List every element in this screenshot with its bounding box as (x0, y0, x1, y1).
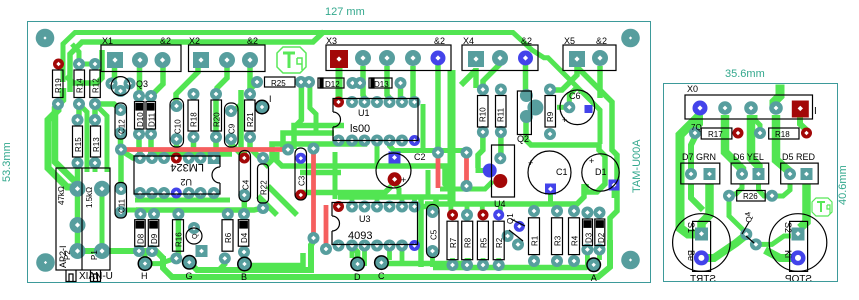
wire hookB (283, 133, 334, 150)
resistor R22 body (258, 164, 269, 203)
svg-text:R4: R4 (571, 235, 580, 246)
wire X5 sq to R9 (550, 67, 577, 90)
resistor R11 body (496, 96, 507, 128)
svg-text:R3: R3 (554, 235, 563, 246)
capacitor C2 circle (376, 153, 411, 188)
svg-text:127 mm: 127 mm (325, 6, 365, 18)
diode D2 body (595, 219, 605, 246)
wire band y192 (302, 186, 392, 193)
wire mid band y210 (136, 208, 263, 210)
svg-text:R14: R14 (76, 78, 85, 93)
svg-text:AP2-I: AP2-I (58, 245, 68, 268)
resistor R16 body (173, 220, 184, 252)
svg-text:R20: R20 (213, 112, 222, 127)
R26 pads (723, 190, 735, 202)
X0 pads (693, 101, 708, 116)
wire D7 pad down (691, 184, 703, 210)
wire U2 bottom stubs (140, 193, 214, 200)
wire red v3 bottom band (440, 181, 493, 189)
C6 blue square pad (585, 105, 593, 113)
node pad red v2 bottom (320, 243, 332, 255)
resistor R15 body (73, 126, 83, 157)
R1 pads (528, 205, 540, 217)
R20 pads (210, 88, 222, 100)
svg-text:ls00: ls00 (350, 123, 370, 135)
wire left trunk b (55, 88, 78, 188)
hole bottom-left (36, 253, 55, 272)
wire band y172 (300, 170, 341, 176)
svg-text:R16: R16 (175, 232, 184, 247)
connector X3 pads (355, 50, 371, 66)
PT logo small right board (812, 198, 832, 216)
svg-text:C2: C2 (414, 152, 426, 162)
svg-text:C: C (378, 271, 385, 281)
pad B (237, 257, 252, 272)
svg-text:R6: R6 (224, 232, 233, 243)
svg-text:A: A (591, 273, 597, 283)
wire X3 pad2 to U1 (387, 66, 390, 102)
svg-text:40.6mm: 40.6mm (837, 165, 849, 205)
LED D5 box (781, 163, 819, 184)
svg-text:G: G (186, 271, 193, 281)
node pad red h left (115, 144, 127, 156)
hole bottom-right (621, 251, 640, 270)
wire D4 to B (241, 252, 247, 258)
svg-text:D5 RED: D5 RED (782, 152, 816, 162)
wire S1 blue right (701, 235, 746, 258)
logo2 octagon (812, 198, 832, 216)
wire U3 bottom stubs (352, 246, 402, 267)
S2 blue ring pad (791, 250, 806, 265)
wire X0 red to R18 (800, 117, 807, 133)
wire R25-D12 pads (301, 80, 310, 86)
connector X1 pads (107, 52, 123, 68)
wire U4 blue left (478, 132, 486, 171)
connector X2 pads (193, 52, 209, 68)
Q4 pads (740, 228, 752, 240)
svg-text:D9: D9 (150, 233, 159, 244)
diode D9 body (148, 220, 159, 247)
connector X5 pads (569, 51, 585, 67)
diode D3 body (583, 219, 593, 246)
connector X3 box (326, 45, 451, 71)
wire X1 pad3 to D11 (152, 64, 163, 95)
pad I (255, 100, 270, 115)
diode D1 circle (582, 154, 619, 191)
wire X3 pad1 to U1 (363, 66, 365, 102)
svg-text:R15: R15 (74, 137, 83, 152)
resistor R25 body (265, 77, 296, 87)
C3 pads (295, 153, 306, 164)
D1 blue square pad (609, 180, 620, 191)
wire D7 sq to S1 (702, 184, 710, 228)
transistor Q3 outline (111, 77, 130, 96)
R3 pads (551, 205, 563, 217)
logo T (283, 53, 295, 68)
switch S2 circle (769, 214, 827, 272)
pad H (138, 256, 153, 271)
svg-text:R13: R13 (92, 137, 101, 152)
R18 pads (754, 127, 766, 139)
capacitor C10 body (170, 99, 184, 148)
resistor R8 body (462, 221, 473, 260)
wire pad301 down to hookA (296, 85, 301, 126)
Q1 pads (514, 221, 525, 232)
wire C12 top left (95, 104, 121, 110)
wire U1 bottom band (390, 141, 467, 151)
svg-text:U4: U4 (494, 199, 506, 209)
svg-text:Q2: Q2 (517, 134, 529, 144)
svg-text:R21: R21 (246, 112, 255, 127)
trimmer feet (66, 270, 101, 282)
hole top-left (36, 29, 55, 48)
D4 pads (238, 208, 250, 220)
wire left trunk S1 (680, 115, 700, 234)
wire X1 square to Q3 (112, 66, 115, 84)
wire C pad band (386, 258, 468, 264)
node pad red v3 top (432, 147, 444, 159)
wire X5 pad down (597, 66, 603, 98)
svg-text:35.6mm: 35.6mm (725, 68, 765, 80)
wire C3 red link (301, 193, 302, 195)
wire under R20 (213, 94, 219, 137)
svg-text:X3: X3 (326, 36, 337, 46)
D8 pads (135, 208, 147, 220)
svg-text:C1: C1 (556, 167, 568, 177)
svg-text:R18: R18 (775, 130, 790, 139)
svg-text:R12: R12 (92, 78, 101, 93)
svg-text:Be: Be (686, 250, 696, 261)
wire X0 pad2 to D6 (725, 115, 742, 174)
P2 P1 trimmer pads (70, 181, 86, 197)
svg-text:D1: D1 (595, 167, 607, 177)
wire pad310 to hookB (310, 85, 316, 133)
svg-text:R5: R5 (479, 237, 488, 248)
resistor R19 body (53, 70, 64, 98)
wire Q4 to S2 (756, 236, 791, 244)
wire right edge down (586, 144, 605, 192)
R19 pads (top red) (53, 59, 64, 70)
svg-text:LM324: LM324 (170, 161, 204, 173)
svg-text:R17: R17 (708, 130, 723, 139)
wire C6 left (557, 105, 569, 110)
pad G (182, 255, 197, 270)
R22 pads (257, 152, 269, 164)
D3 pads (581, 207, 593, 219)
wire R17 left down (691, 137, 695, 174)
resistor R14 body (74, 70, 85, 98)
wire X2 pad3 down (247, 66, 253, 94)
connector X4 box (462, 45, 538, 71)
R13 pads (89, 114, 101, 126)
wire top bus second (70, 32, 324, 93)
wire X2 pad2 diagonal (216, 66, 227, 94)
svg-text:Q3: Q3 (136, 79, 148, 89)
wire R10 bottom down (478, 132, 483, 168)
LED D6 box (731, 163, 769, 184)
resistor R17 body (701, 128, 732, 139)
wire red-end down to C11 (118, 150, 124, 189)
C5 pads (427, 206, 439, 218)
transistor Q1 lines (509, 219, 525, 241)
svg-text:R19: R19 (54, 78, 63, 93)
svg-text:H: H (141, 271, 148, 281)
wire C9 col vertical (241, 90, 244, 158)
svg-text:D7 GRN: D7 GRN (682, 152, 716, 162)
IC U2 box (134, 156, 220, 194)
node pad mid (282, 144, 294, 156)
logo2 T (817, 202, 825, 212)
svg-text:X5: X5 (564, 36, 575, 46)
switch S2 rect (790, 221, 808, 271)
wire U2 top stubs (152, 154, 214, 158)
wire U4 to R11 (498, 132, 504, 158)
wire R14-R15 (76, 104, 82, 120)
D5 pads (784, 168, 796, 180)
wire resistor top band (425, 184, 584, 204)
svg-text:XΙAN-U: XΙAN-U (79, 271, 113, 282)
wire X0 blue to R17 (695, 115, 700, 133)
wire top bus outer (63, 33, 600, 145)
svg-text:D: D (354, 272, 361, 282)
wire D10 bottom (139, 134, 140, 158)
U3 bottom pad row (333, 240, 345, 252)
R14 pads (73, 58, 85, 70)
resistor R18 body (188, 100, 199, 131)
right board outline (664, 84, 838, 282)
svg-text:X2: X2 (189, 36, 200, 46)
wire U2 bottom band (135, 198, 230, 203)
diode D11 body (146, 102, 156, 130)
wire central trunk (448, 70, 456, 202)
wire resistor top stubs (451, 204, 573, 213)
wire bottom bus2 (189, 241, 313, 270)
capacitor C5 body (427, 205, 440, 258)
svg-text:U3: U3 (359, 214, 371, 224)
svg-text:C11: C11 (118, 198, 127, 213)
svg-text:P1: P1 (90, 250, 99, 260)
wire X0 top feed (774, 85, 780, 111)
capacitor C11 body (115, 183, 127, 219)
red trace vertical 1 (311, 152, 316, 238)
wire D12-D13 pads (353, 80, 361, 86)
node pad red v4 bottom (461, 180, 473, 192)
R6 pads (222, 208, 234, 220)
resistor R3 body (552, 218, 563, 255)
C1 blue square pad (545, 184, 556, 195)
switch S1 rect (693, 221, 711, 271)
R2 pads (493, 209, 504, 220)
svg-text:C12: C12 (118, 119, 127, 134)
wire R25 to R21 (250, 83, 258, 95)
wire diag to C3 area (268, 186, 297, 215)
S2 square pad (792, 228, 805, 241)
svg-text:Q: Q (192, 233, 199, 239)
wire X3 pad3 to U1 (413, 66, 415, 102)
svg-text:+: + (589, 156, 594, 166)
D9 pads (148, 208, 160, 220)
U2 bottom pad row (134, 187, 146, 199)
logo2 q (827, 205, 830, 214)
wire C10 bottom (174, 139, 180, 158)
svg-text:D11: D11 (148, 112, 157, 127)
D11 pads (145, 90, 157, 102)
wire R13 bottom (95, 104, 107, 172)
R16 pads (172, 208, 184, 220)
svg-text:+: + (528, 158, 533, 168)
R12 pads (89, 58, 101, 70)
wire P pads band (78, 251, 164, 258)
Q3 pads (106, 78, 118, 90)
D6 pads (736, 168, 748, 180)
svg-text:R8: R8 (464, 237, 473, 248)
LED D7 box (681, 163, 720, 184)
wire band over C1 D1 (526, 120, 599, 145)
resistor R9 body (545, 96, 556, 128)
U4 pads (494, 152, 506, 164)
wire X3 red to U1 pin1 (336, 66, 343, 100)
wire C2 red down (395, 183, 399, 197)
X0 red square pad (792, 101, 809, 118)
svg-text:X4: X4 (463, 36, 474, 46)
svg-text:4093: 4093 (348, 230, 372, 242)
svg-text:C6: C6 (569, 91, 581, 101)
wire right bundle2 (578, 68, 617, 186)
wire R18 bottom (189, 137, 194, 158)
capacitor C3 body (295, 148, 307, 200)
wire C4 bottom (242, 195, 248, 210)
resistor R2 body (493, 221, 504, 260)
resistor R13 body (91, 126, 101, 157)
pad A (586, 257, 601, 272)
wire stub R12 top (79, 62, 95, 67)
capacitor C12 body (115, 103, 127, 139)
diode D13 body (369, 78, 392, 88)
svg-text:D10: D10 (136, 112, 145, 127)
transistor Q7 circle (186, 228, 202, 244)
logo q (297, 58, 302, 70)
wire R26 to Q4 (729, 196, 746, 233)
svg-text:R10: R10 (479, 107, 488, 122)
R25 pads (251, 76, 263, 88)
wire resistor bottom stubs (453, 250, 600, 268)
svg-text:53.3mm: 53.3mm (1, 142, 13, 182)
wire R15 bottom (75, 163, 81, 188)
IC U3 box (332, 203, 418, 245)
wire R6 bottom (219, 258, 225, 270)
red trace horizontal (122, 147, 288, 152)
wire C1 blue down (548, 194, 553, 204)
svg-text:R25: R25 (271, 79, 286, 88)
wire C5 stubs (430, 204, 435, 267)
capacitor C6 circle (560, 90, 595, 125)
wire right link (610, 186, 617, 240)
hole top-right (621, 29, 640, 48)
Q2 pads (520, 89, 533, 102)
wire C6 feed (569, 87, 577, 107)
wire U2 top band (148, 151, 232, 157)
C12 pads (115, 104, 127, 116)
wire R20 bottom (214, 137, 216, 158)
wire left of U3 notch (333, 152, 338, 199)
resistor R21 body (245, 100, 256, 131)
connector X2 box (189, 45, 266, 72)
wire hookC (265, 141, 365, 167)
wire B pad band (251, 253, 303, 266)
svg-text:&2: &2 (596, 36, 607, 46)
wire bottom long bus (163, 240, 610, 277)
wire C2 blue up (390, 141, 395, 153)
svg-text:I: I (269, 94, 272, 104)
capacitor C9 body (225, 103, 239, 147)
svg-text:D8: D8 (137, 233, 146, 244)
svg-text:&2: &2 (521, 36, 532, 46)
left board outline (28, 22, 651, 283)
diode D8 body (135, 220, 146, 247)
resistor R7 body (447, 221, 458, 260)
svg-text:X0: X0 (687, 84, 698, 94)
wire H pad up (143, 251, 148, 264)
svg-text:U1: U1 (358, 108, 370, 118)
diode D4 body (238, 220, 249, 247)
wire C5 left vertical (418, 197, 424, 267)
R18 pads (188, 88, 200, 100)
resistor R5 body (477, 221, 488, 260)
node pad red v1 bottom (308, 232, 320, 244)
wire C9 top feed (231, 104, 241, 110)
U1 bottom pad row (333, 135, 345, 147)
transistor Q4 line (742, 222, 754, 243)
D2 pads (594, 207, 606, 219)
svg-text:U2: U2 (180, 177, 192, 187)
switch S1 circle (673, 214, 731, 272)
wire H pad to R16 (145, 258, 176, 264)
wire pad414 to trunk (415, 197, 437, 207)
svg-text:D4: D4 (240, 232, 249, 243)
diode D12 body (318, 78, 344, 88)
svg-text:R7: R7 (449, 237, 458, 248)
C11 pads (115, 183, 127, 195)
svg-text:C10: C10 (174, 119, 183, 134)
svg-text:R26: R26 (743, 192, 758, 201)
IC U4 box (492, 145, 515, 197)
svg-text:D13: D13 (374, 80, 389, 89)
wire X4 pad to R11 (483, 64, 500, 90)
resistor R1 body (529, 218, 540, 255)
wire mid band stubs (141, 210, 245, 214)
R11 pads (495, 84, 507, 96)
R10 pads (477, 84, 489, 96)
wire band y166 (277, 152, 450, 189)
wire S2 blue left (765, 250, 798, 258)
svg-text:D12: D12 (325, 80, 340, 89)
logo octagon (277, 47, 306, 73)
wire D6 sq to R26 (759, 184, 773, 196)
svg-text:X1: X1 (102, 36, 113, 46)
R21 pads (244, 88, 256, 100)
resistor R10 body (478, 96, 489, 128)
wire P1 internal vertical (100, 189, 105, 251)
svg-text:D3: D3 (585, 232, 594, 243)
C10 pads (171, 100, 183, 112)
wire R21 to R22 (250, 137, 263, 156)
diode D10 body (135, 102, 145, 130)
D7 pads (685, 168, 697, 180)
svg-text:+: + (562, 115, 567, 125)
S1 blue ring pad (694, 250, 709, 265)
svg-text:R2: R2 (495, 237, 504, 248)
resistor R20 body (211, 100, 222, 131)
